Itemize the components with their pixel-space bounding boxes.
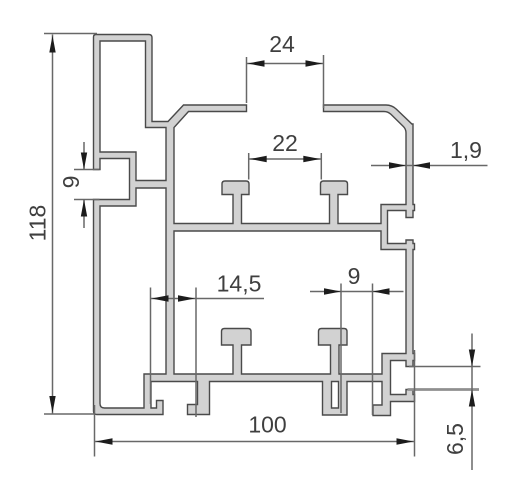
svg-text:118: 118 xyxy=(25,205,51,242)
extension line left T-boss inner (22) xyxy=(248,153,250,180)
extension line top (6,5) xyxy=(409,366,481,368)
svg-text:14,5: 14,5 xyxy=(217,271,262,297)
extension line bottom (118) xyxy=(44,413,95,415)
extension line slot bottom (9 left) xyxy=(74,199,100,201)
svg-text:22: 22 xyxy=(272,130,298,156)
dimension line 118 xyxy=(52,35,54,415)
extension line right (100) xyxy=(414,350,416,457)
dimension line 9 bottom xyxy=(310,291,404,293)
extension line left (14,5) xyxy=(150,288,152,405)
dimension line 1,9 xyxy=(371,165,488,167)
dimension line 9 left xyxy=(83,142,85,170)
svg-text:6,5: 6,5 xyxy=(442,423,468,455)
svg-text:100: 100 xyxy=(248,412,286,438)
extension line right (14,5) xyxy=(195,288,197,418)
dimension line 14,5 xyxy=(151,298,265,300)
svg-text:24: 24 xyxy=(269,31,295,57)
svg-text:9: 9 xyxy=(348,263,361,289)
extension line slot right edge (24) xyxy=(323,55,325,108)
extension line bottom (6,5) xyxy=(408,388,480,391)
extension line slot left edge (24) xyxy=(246,57,248,103)
dimension line 22 xyxy=(249,158,322,160)
dimension line 24 xyxy=(247,63,324,65)
extension line right (9 bottom) xyxy=(372,284,374,416)
svg-text:1,9: 1,9 xyxy=(450,137,482,163)
extension line left (9 bottom) xyxy=(340,284,342,414)
svg-text:9: 9 xyxy=(58,176,84,189)
extension line slot top (9 left) xyxy=(74,169,100,171)
extension line top (118) xyxy=(44,33,97,35)
dimension line 100 xyxy=(95,441,415,443)
dimension line 6,5 xyxy=(471,334,473,471)
extension line left (100) xyxy=(94,405,96,457)
extension line right T-boss inner (22) xyxy=(320,153,322,180)
aluminium profile cross-section xyxy=(94,35,415,416)
